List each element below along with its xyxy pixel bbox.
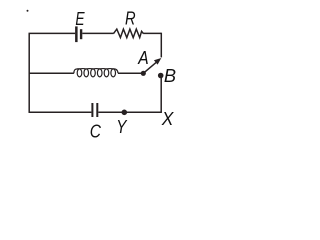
node Y dot [122,110,128,116]
battery E short plate [80,29,82,39]
wire: coil to switch pivot [118,72,143,74]
switch arm arrowhead [154,58,161,65]
svg-text:C: C [90,122,102,140]
capacitor C left plate [91,103,93,117]
svg-text:Y: Y [116,117,128,137]
wire: right rail upper [160,33,162,58]
stray dot [27,10,29,12]
wire: bottom left segment [29,111,92,113]
wire: B to X rail [160,77,162,113]
wire: bottom right segment [98,111,162,113]
switch arm [143,60,159,73]
inductor coil loop 2 [84,69,89,77]
wire: battery to resistor [82,32,113,34]
svg-text:E: E [75,9,85,29]
svg-text:A: A [137,48,148,68]
battery E long plate [75,26,78,42]
svg-text:B: B [164,66,176,86]
wire: left rail [28,33,30,112]
switch pivot node dot [141,71,146,76]
svg-text:R: R [125,9,136,29]
inductor coil loop 3 [91,69,96,77]
resistor R zigzag [114,29,144,37]
wire: middle branch left [29,72,74,74]
inductor coil loop 4 [97,69,102,77]
inductor top bridges and end hooks [74,69,118,74]
svg-text:X: X [161,109,175,129]
inductor coil loop 1 [77,69,82,77]
capacitor C right plate [96,103,98,117]
wire: top left segment [29,32,76,34]
node B dot [158,73,164,79]
inductor coil loop 6 [111,69,116,77]
inductor coil loop 5 [104,69,109,77]
wire: resistor to top-right corner [143,32,161,34]
